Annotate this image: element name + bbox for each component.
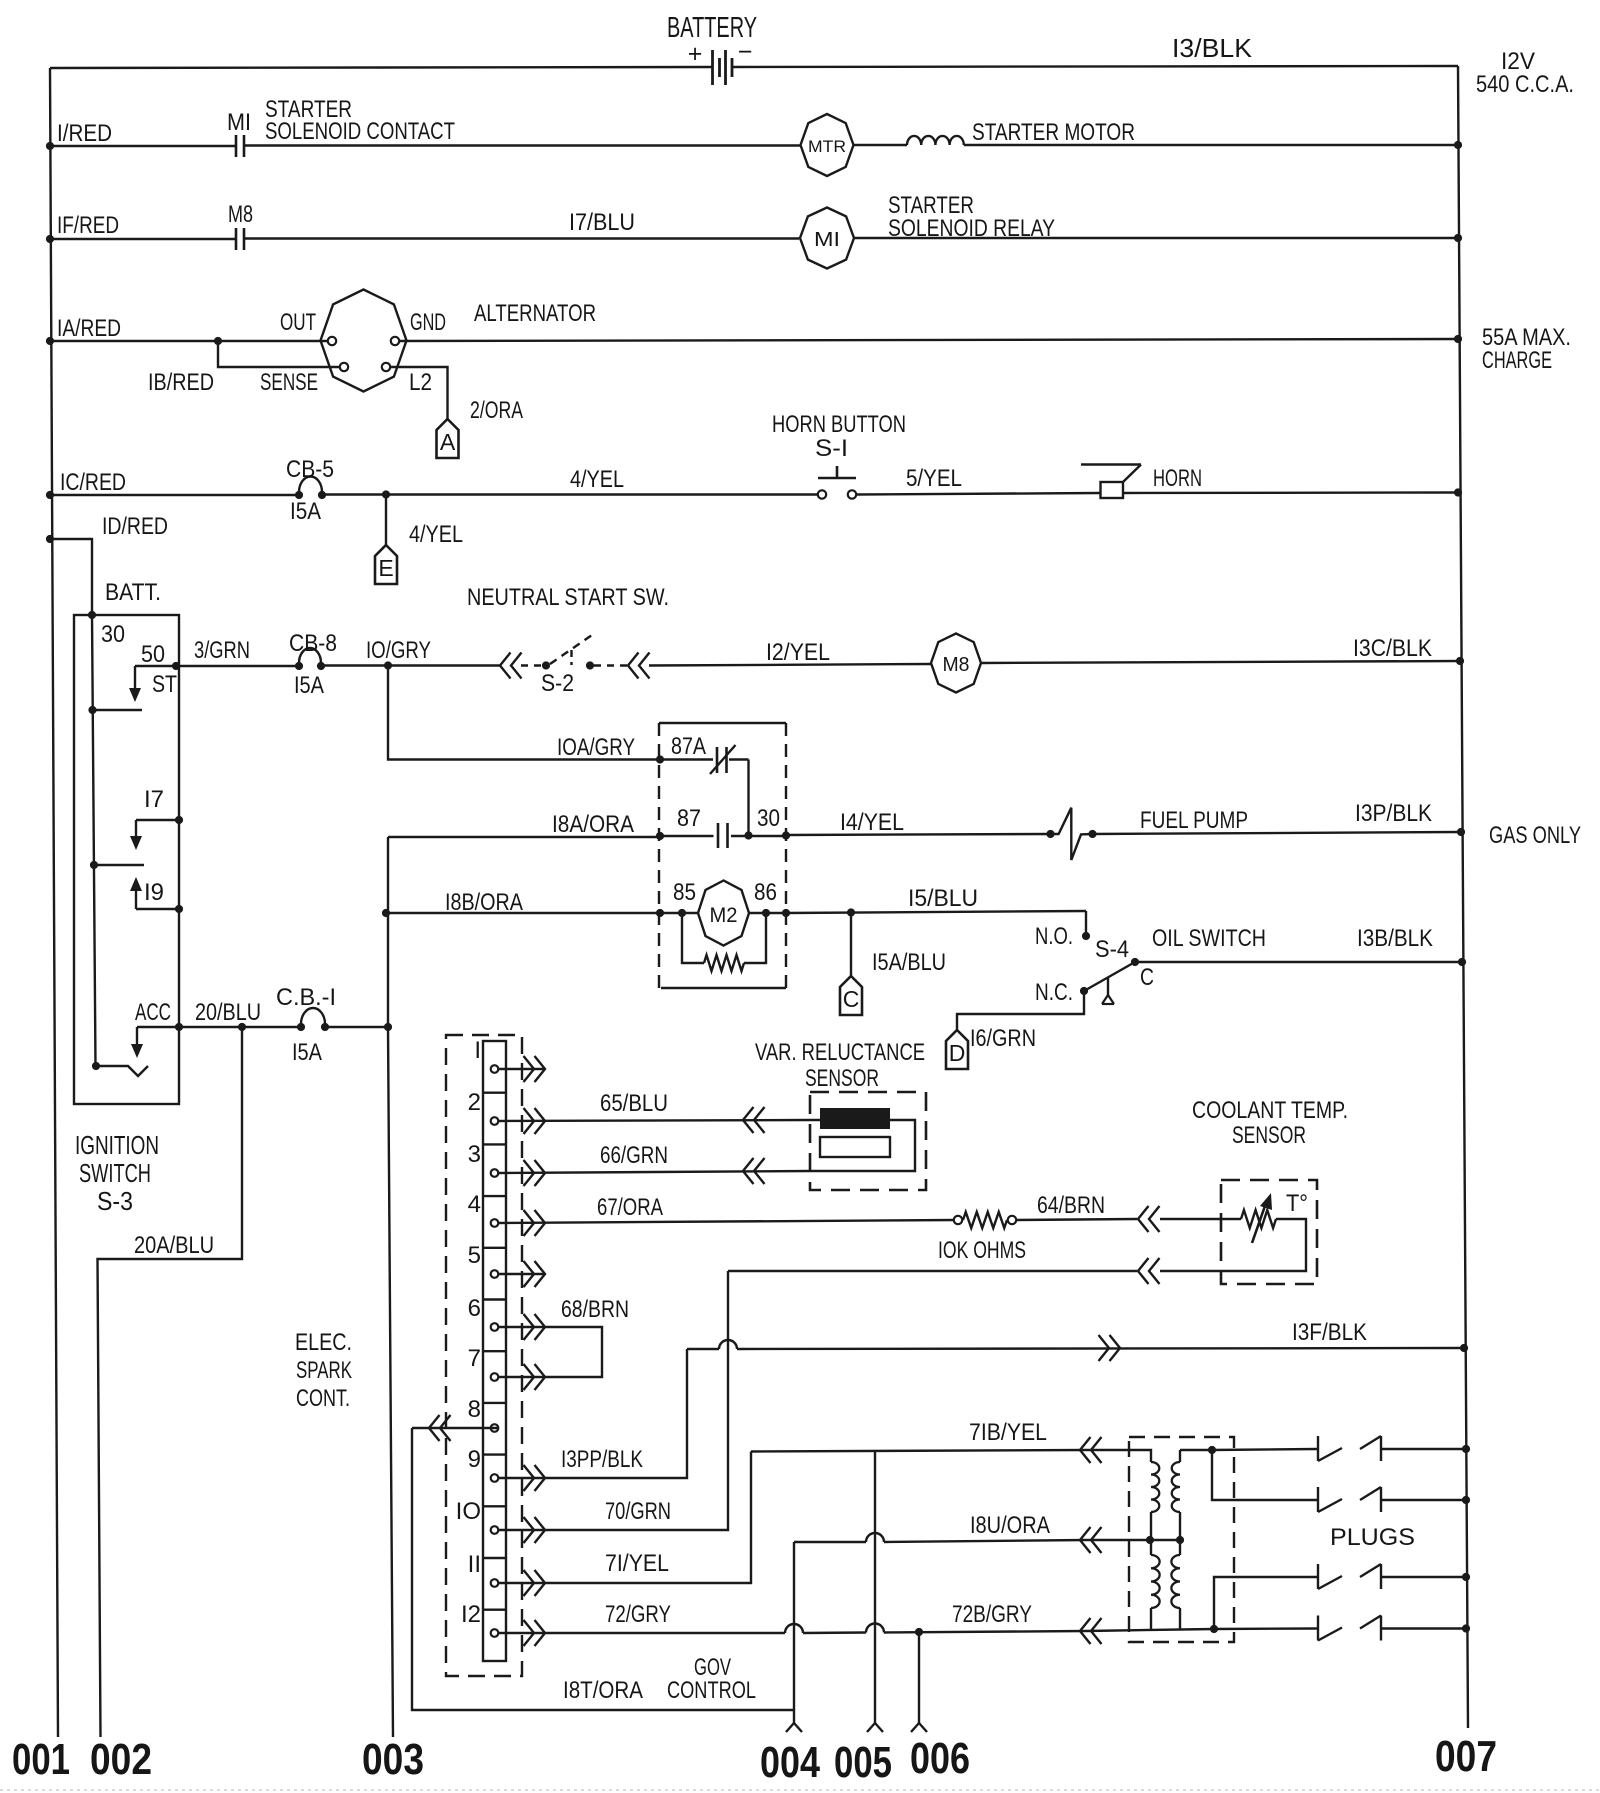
svg-text:D: D xyxy=(949,1040,966,1066)
wire 71B/YEL xyxy=(751,1450,1086,1452)
node 15/BLU tap xyxy=(847,908,855,916)
wire plug row1 xyxy=(1212,1449,1317,1450)
wire 10/GRY xyxy=(321,664,500,666)
contact M1 starter solenoid contact xyxy=(235,135,238,157)
ESC connector pin strip xyxy=(483,1041,506,1661)
svg-text:001: 001 xyxy=(12,1735,70,1784)
fork 005 xyxy=(867,1723,883,1732)
svg-text:87A: 87A xyxy=(671,733,706,760)
resistor relay economizer xyxy=(682,913,704,963)
wire VRS loop xyxy=(810,1120,915,1171)
svg-text:ACC: ACC xyxy=(135,999,171,1026)
svg-text:30: 30 xyxy=(757,805,780,832)
switch fuel pump vacuum xyxy=(1046,830,1054,838)
svg-text:20A/BLU: 20A/BLU xyxy=(134,1232,214,1259)
plunger oil switch xyxy=(1107,977,1109,996)
wire 72/GRY xyxy=(498,1632,785,1634)
wire 16/GRN to flag D xyxy=(957,991,1084,1030)
node wiper ACC xyxy=(92,1062,100,1070)
svg-text:VAR. RELUCTANCE: VAR. RELUCTANCE xyxy=(755,1039,925,1066)
node 87 xyxy=(656,832,664,840)
node N.C. xyxy=(1080,987,1088,995)
relay coil M2 xyxy=(698,881,749,946)
wire 18U/ORA xyxy=(794,1541,866,1543)
node row4 right xyxy=(1454,488,1462,496)
wire 1F/RED row xyxy=(50,238,236,240)
node 85 edge xyxy=(656,909,664,917)
svg-text:003: 003 xyxy=(362,1735,424,1784)
node common C xyxy=(1131,958,1139,966)
svg-text:540 C.C.A.: 540 C.C.A. xyxy=(1476,71,1574,98)
wire 006 drop xyxy=(918,1632,920,1723)
VRS magnet bar xyxy=(820,1108,890,1129)
node 20A tap xyxy=(238,1023,246,1031)
breaker C.B.-1 15A xyxy=(297,1023,305,1031)
svg-text:I7/BLU: I7/BLU xyxy=(569,209,635,236)
ESC cell divider xyxy=(483,1557,506,1559)
svg-text:PLUGS: PLUGS xyxy=(1330,1524,1415,1551)
svg-text:IO: IO xyxy=(456,1498,481,1525)
node 87A xyxy=(656,755,664,763)
pin ESC 1 xyxy=(491,1065,499,1073)
inductor starter motor winding xyxy=(854,144,908,146)
svg-text:I5A: I5A xyxy=(290,498,321,525)
node wiper ST xyxy=(88,706,96,714)
svg-text:E: E xyxy=(378,555,393,581)
svg-text:I5A/BLU: I5A/BLU xyxy=(872,949,946,976)
wire 1/RED row xyxy=(50,145,236,147)
svg-text:2: 2 xyxy=(468,1089,481,1116)
svg-text:IO/GRY: IO/GRY xyxy=(366,637,431,664)
svg-text:I3C/BLK: I3C/BLK xyxy=(1353,635,1432,662)
thermistor xyxy=(1221,1218,1241,1220)
wire 18A/ORA xyxy=(388,836,660,838)
contact 50/ST xyxy=(135,665,176,667)
svg-text:HORN BUTTON: HORN BUTTON xyxy=(772,411,906,438)
wire fuel pump to bus xyxy=(1092,832,1461,834)
node 30 xyxy=(782,831,790,839)
svg-text:GAS ONLY: GAS ONLY xyxy=(1489,822,1581,849)
svg-text:IOK OHMS: IOK OHMS xyxy=(938,1237,1026,1264)
svg-text:006: 006 xyxy=(910,1734,970,1783)
svg-text:I6/GRN: I6/GRN xyxy=(970,1025,1036,1052)
resistor 10K OHMS xyxy=(954,1216,962,1224)
flag C xyxy=(840,976,862,1015)
svg-text:4: 4 xyxy=(468,1191,481,1218)
pin ESC 5 xyxy=(491,1270,499,1278)
svg-text:L2: L2 xyxy=(409,369,432,396)
svg-text:I3P/BLK: I3P/BLK xyxy=(1355,800,1432,827)
svg-text:3: 3 xyxy=(468,1141,481,1168)
svg-text:SENSE: SENSE xyxy=(260,369,318,396)
svg-text:NEUTRAL START SW.: NEUTRAL START SW. xyxy=(467,584,669,611)
wire secondary top lead xyxy=(1180,1449,1212,1451)
wire 3/GRN xyxy=(176,665,299,667)
contact 87-30 xyxy=(660,835,714,837)
ESC cell divider xyxy=(483,1195,506,1197)
node row1 left xyxy=(46,142,54,150)
node plug 1 right xyxy=(1462,1445,1470,1453)
ESC cell divider xyxy=(483,1453,506,1455)
spark plug 3 xyxy=(1317,1564,1319,1589)
wire 005 drop xyxy=(874,1452,876,1724)
wire 1C/RED row xyxy=(50,494,299,496)
svg-text:005: 005 xyxy=(834,1738,892,1787)
svg-text:5/YEL: 5/YEL xyxy=(906,465,962,492)
svg-text:MTR: MTR xyxy=(808,137,846,156)
svg-text:CONTROL: CONTROL xyxy=(667,1677,756,1704)
svg-text:70/GRN: 70/GRN xyxy=(605,1498,671,1525)
wire 12/YEL xyxy=(649,664,931,666)
coil primary winding xyxy=(1151,1462,1159,1512)
VRS pole piece xyxy=(820,1137,890,1157)
wire 1A/RED row xyxy=(50,340,328,342)
ESC cell divider xyxy=(483,1143,506,1145)
svg-text:5: 5 xyxy=(468,1242,481,1269)
ESC connector outer box xyxy=(446,1035,522,1676)
ESC cell divider xyxy=(483,1247,506,1249)
wire CB-5 to horn button xyxy=(322,493,818,495)
alternator G1 xyxy=(321,290,407,392)
horn LS1 xyxy=(1101,482,1124,498)
svg-text:II: II xyxy=(468,1551,481,1578)
svg-text:S-3: S-3 xyxy=(97,1186,133,1216)
svg-text:I3PP/BLK: I3PP/BLK xyxy=(561,1446,643,1473)
svg-text:MI: MI xyxy=(227,109,251,136)
svg-text:M2: M2 xyxy=(710,904,738,927)
svg-text:MI: MI xyxy=(814,229,840,251)
svg-text:STARTER MOTOR: STARTER MOTOR xyxy=(972,119,1135,146)
svg-text:COOLANT TEMP.: COOLANT TEMP. xyxy=(1192,1097,1348,1124)
node 86 edge xyxy=(782,909,790,917)
wire 004 drop xyxy=(793,1542,795,1723)
node 1B/RED tap xyxy=(214,337,222,345)
ESC cell divider xyxy=(483,1505,506,1507)
wire right bus 007 xyxy=(1458,66,1468,1728)
wire 14/YEL fuel pump xyxy=(786,834,1050,835)
svg-text:CB-5: CB-5 xyxy=(286,456,334,483)
svg-text:OUT: OUT xyxy=(280,309,316,336)
pin ESC 3 xyxy=(491,1169,499,1177)
svg-text:SENSOR: SENSOR xyxy=(805,1065,879,1092)
svg-text:68/BRN: 68/BRN xyxy=(561,1296,629,1323)
switch S-4 blade xyxy=(1084,962,1135,991)
svg-text:20/BLU: 20/BLU xyxy=(195,999,261,1026)
wire plug row4 xyxy=(1214,1627,1317,1630)
wire 15/BLU xyxy=(786,911,1086,913)
wire 70/GRN xyxy=(498,1271,728,1530)
svg-text:4/YEL: 4/YEL xyxy=(409,521,463,548)
svg-text:I3F/BLK: I3F/BLK xyxy=(1292,1319,1367,1346)
breaker CB-8 15A xyxy=(295,662,303,670)
svg-text:I5/BLU: I5/BLU xyxy=(908,885,978,912)
svg-text:BATTERY: BATTERY xyxy=(667,12,757,44)
pin ESC 7 xyxy=(491,1373,499,1381)
svg-text:I8U/ORA: I8U/ORA xyxy=(970,1512,1050,1539)
svg-text:I/RED: I/RED xyxy=(57,120,112,147)
svg-text:SWITCH: SWITCH xyxy=(79,1158,151,1188)
sensor coolant temp box xyxy=(1221,1180,1317,1284)
wire ESC feed down to 003 xyxy=(388,1027,393,1737)
wire 67/ORA xyxy=(498,1220,954,1223)
wire 71/YEL xyxy=(498,1452,751,1584)
coil T1 box xyxy=(1129,1437,1234,1642)
node 87-30 mid xyxy=(744,831,752,839)
svg-text:+: + xyxy=(688,40,703,68)
svg-text:I8A/ORA: I8A/ORA xyxy=(552,811,634,838)
svg-text:C.B.-I: C.B.-I xyxy=(276,984,336,1011)
contact 17 xyxy=(175,816,183,824)
wire 18B/ORA xyxy=(386,912,660,914)
svg-text:S-2: S-2 xyxy=(541,670,574,697)
wire horn to right bus xyxy=(1123,491,1458,494)
wire plug 3 to bus xyxy=(1381,1576,1466,1578)
node 86 xyxy=(762,909,770,917)
node plug 3 right xyxy=(1462,1573,1470,1581)
relay M1 starter solenoid relay xyxy=(800,208,854,269)
svg-text:9: 9 xyxy=(468,1446,481,1473)
svg-text:I8T/ORA: I8T/ORA xyxy=(563,1677,643,1704)
svg-text:C: C xyxy=(843,986,860,1012)
svg-text:SENSOR: SENSOR xyxy=(1232,1122,1306,1149)
contact ACC xyxy=(175,1023,183,1031)
svg-text:S-4: S-4 xyxy=(1095,936,1129,963)
pin L2 xyxy=(382,363,390,371)
wire 65/BLU xyxy=(498,1120,810,1121)
node wiper 17/19 xyxy=(90,861,98,869)
pin ESC 10 xyxy=(491,1526,499,1534)
wire 15/BLU to N.O. xyxy=(1085,911,1087,932)
svg-text:S-I: S-I xyxy=(815,435,848,462)
svg-text:T°: T° xyxy=(1286,1190,1308,1217)
sensor VRS box xyxy=(810,1092,926,1190)
svg-text:I5A: I5A xyxy=(294,672,324,699)
wire 4/YEL drop to flag E xyxy=(385,495,387,546)
pin ESC 11 xyxy=(491,1579,499,1587)
switch S-2 neutral start xyxy=(500,653,511,679)
svg-text:85: 85 xyxy=(673,879,696,906)
ignition switch S-3 box xyxy=(74,615,179,1104)
svg-text:N.O.: N.O. xyxy=(1035,923,1073,950)
wire plug row3 xyxy=(1214,1577,1317,1629)
pin ESC 4 xyxy=(491,1219,499,1227)
node 72B junction xyxy=(915,1628,923,1636)
wire plug 2 to bus xyxy=(1381,1499,1466,1501)
svg-text:SPARK: SPARK xyxy=(296,1357,352,1384)
svg-text:FUEL PUMP: FUEL PUMP xyxy=(1140,807,1248,834)
coil secondary winding xyxy=(1179,1450,1181,1462)
svg-text:GND: GND xyxy=(410,309,446,336)
wire coolant lower to 70/GRN xyxy=(1160,1270,1221,1272)
svg-text:ELEC.: ELEC. xyxy=(295,1329,352,1356)
page edge xyxy=(0,1789,1600,1791)
svg-text:IF/RED: IF/RED xyxy=(57,212,119,239)
node plug 2 right xyxy=(1462,1496,1470,1504)
wire top bus 13/BLK xyxy=(50,67,712,68)
svg-text:64/BRN: 64/BRN xyxy=(1037,1192,1105,1219)
node 3/GRN at box xyxy=(172,662,180,670)
svg-text:M8: M8 xyxy=(228,201,253,228)
wire 13PP/BLK xyxy=(498,1349,687,1478)
wire plug 4 to bus xyxy=(1381,1627,1466,1629)
switch S-1 horn button xyxy=(818,490,826,498)
node 13B right xyxy=(1458,958,1466,966)
svg-text:I2: I2 xyxy=(461,1601,481,1628)
svg-text:IOA/GRY: IOA/GRY xyxy=(557,734,635,761)
node fuel right xyxy=(1457,828,1465,836)
svg-text:ALTERNATOR: ALTERNATOR xyxy=(474,300,596,327)
svg-text:6: 6 xyxy=(468,1295,481,1322)
node N.O. xyxy=(1082,932,1090,940)
svg-text:HORN: HORN xyxy=(1153,465,1202,492)
wire 68/BRN loop xyxy=(498,1327,602,1377)
svg-text:CB-8: CB-8 xyxy=(289,630,337,657)
node 1D/RED tap xyxy=(46,535,54,543)
pin OUT xyxy=(328,337,336,345)
svg-text:BATT.: BATT. xyxy=(105,579,161,606)
wire ESC pin1 xyxy=(498,1068,545,1070)
node 30 terminal xyxy=(88,611,96,619)
breaker CB-5 15A xyxy=(295,491,303,499)
ESC cell divider xyxy=(483,1091,506,1093)
wire 72B into coil xyxy=(1086,1629,1214,1631)
node 10/GRY junction xyxy=(384,661,392,669)
svg-text:I9: I9 xyxy=(144,879,164,906)
wire left bus 001 xyxy=(50,68,58,1737)
flag D xyxy=(946,1030,968,1069)
spark plug 1 xyxy=(1317,1436,1319,1461)
wire plug row2 xyxy=(1212,1450,1317,1500)
wire 13F/BLK to bus xyxy=(687,1348,719,1350)
ESC cell divider xyxy=(483,1350,506,1352)
pin ESC 12 xyxy=(491,1629,499,1637)
node 13F right xyxy=(1460,1344,1468,1352)
fork 004 xyxy=(786,1723,802,1732)
contact M8 xyxy=(235,228,238,250)
svg-text:CONT.: CONT. xyxy=(296,1385,350,1412)
svg-text:N.C.: N.C. xyxy=(1035,979,1073,1006)
svg-text:66/GRN: 66/GRN xyxy=(600,1142,668,1169)
svg-text:SOLENOID RELAY: SOLENOID RELAY xyxy=(888,215,1055,242)
svg-text:A: A xyxy=(440,429,456,455)
svg-text:86: 86 xyxy=(754,879,777,906)
node row3 right xyxy=(1454,335,1462,343)
node row2 left xyxy=(46,235,54,243)
wire ESC pin8 18T/ORA xyxy=(412,1427,498,1429)
svg-text:CHARGE: CHARGE xyxy=(1482,347,1552,374)
svg-text:ID/RED: ID/RED xyxy=(102,513,168,540)
svg-text:004: 004 xyxy=(760,1738,820,1787)
wire ignition common rail xyxy=(92,615,96,1066)
svg-text:007: 007 xyxy=(1435,1732,1497,1781)
svg-text:IA/RED: IA/RED xyxy=(57,315,121,342)
wire 18U center tap xyxy=(1086,1539,1150,1541)
svg-text:I3B/BLK: I3B/BLK xyxy=(1357,925,1433,952)
svg-text:I8B/ORA: I8B/ORA xyxy=(445,889,523,916)
svg-text:7IB/YEL: 7IB/YEL xyxy=(969,1419,1047,1446)
svg-text:72B/GRY: 72B/GRY xyxy=(952,1601,1032,1628)
ESC cell divider xyxy=(483,1402,506,1404)
flag A xyxy=(437,419,459,458)
svg-text:002: 002 xyxy=(90,1735,152,1784)
wire 10A/GRY xyxy=(388,666,660,760)
wire ESC pin5 xyxy=(498,1273,545,1275)
svg-text:50: 50 xyxy=(141,641,165,668)
svg-text:8: 8 xyxy=(468,1396,481,1423)
node row3 left xyxy=(46,337,54,345)
svg-text:2/ORA: 2/ORA xyxy=(470,397,523,424)
svg-text:7: 7 xyxy=(468,1345,481,1372)
node row2 right xyxy=(1454,234,1462,242)
relay M8 coil xyxy=(931,634,981,693)
svg-text:M8: M8 xyxy=(943,654,970,676)
flag E xyxy=(375,545,397,584)
svg-text:30: 30 xyxy=(101,621,125,648)
node row4 left xyxy=(46,491,54,499)
svg-text:3/GRN: 3/GRN xyxy=(194,637,250,664)
node plug 4 right xyxy=(1462,1624,1470,1632)
svg-text:IGNITION: IGNITION xyxy=(75,1130,159,1160)
svg-text:87: 87 xyxy=(677,805,701,832)
node row1 right xyxy=(1454,141,1462,149)
wire oil switch to bus 13B/BLK xyxy=(1135,961,1462,963)
wire 64/BRN to sensor xyxy=(1160,1218,1221,1220)
ESC cell divider xyxy=(483,1298,506,1300)
pin SENSE xyxy=(340,363,348,371)
spark plug 2 xyxy=(1317,1487,1319,1512)
wire 15A/BLU to flag C xyxy=(850,913,852,977)
node CB1 junction xyxy=(384,1023,392,1031)
svg-text:I4/YEL: I4/YEL xyxy=(840,809,904,836)
pin ESC 2 xyxy=(491,1117,499,1125)
wire 5/YEL xyxy=(856,493,1100,495)
wire 87A to 30 xyxy=(747,760,749,836)
svg-text:OIL SWITCH: OIL SWITCH xyxy=(1152,925,1266,952)
spark plug 4 xyxy=(1317,1616,1319,1641)
svg-text:72/GRY: 72/GRY xyxy=(605,1601,671,1628)
pin ESC 9 xyxy=(491,1474,499,1482)
svg-text:65/BLU: 65/BLU xyxy=(600,1090,668,1117)
pin GND xyxy=(391,337,399,345)
wire 71B into coil xyxy=(1086,1450,1151,1462)
svg-text:I3/BLK: I3/BLK xyxy=(1172,33,1253,63)
relay K1 box xyxy=(659,722,786,724)
battery BAT1 xyxy=(711,50,714,85)
svg-text:I: I xyxy=(474,1037,481,1064)
svg-text:C: C xyxy=(1140,964,1154,991)
pin ESC 8 xyxy=(491,1424,499,1432)
motor MTR starter motor xyxy=(801,114,854,176)
wire 20/BLU xyxy=(179,1026,301,1028)
svg-text:SOLENOID CONTACT: SOLENOID CONTACT xyxy=(265,118,455,145)
svg-text:4/YEL: 4/YEL xyxy=(570,466,624,493)
wire 1B/RED xyxy=(218,341,340,367)
wire GND to right bus xyxy=(399,339,1458,341)
wire 66/GRN xyxy=(498,1171,810,1173)
contact 19 xyxy=(130,877,142,891)
svg-text:7I/YEL: 7I/YEL xyxy=(605,1550,669,1577)
wire 20A/BLU xyxy=(98,1027,243,1737)
svg-text:IB/RED: IB/RED xyxy=(148,369,214,396)
node 13C right xyxy=(1456,657,1464,665)
svg-text:I2/YEL: I2/YEL xyxy=(766,639,830,666)
wire plug 1 to bus xyxy=(1381,1448,1466,1450)
svg-text:ST: ST xyxy=(152,671,177,698)
contact 87A xyxy=(660,758,713,760)
node 85 xyxy=(678,909,686,917)
pin ESC 6 xyxy=(491,1323,499,1331)
node 18B junction xyxy=(382,909,390,917)
